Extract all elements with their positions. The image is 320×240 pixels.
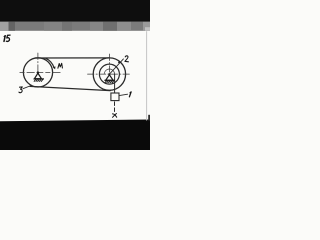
label 2 — [125, 56, 128, 62]
label M — [58, 63, 63, 68]
x axis dashed line — [114, 102, 116, 113]
top black scan band — [0, 0, 150, 22]
faint page edge line right — [146, 31, 148, 120]
pulley 2 axle pin — [108, 73, 110, 75]
figure number 15 — [4, 35, 10, 41]
pulley 2 vertical centerline — [108, 54, 110, 75]
weight 1 box — [111, 93, 119, 101]
pulley 3 support hatching — [34, 79, 44, 82]
gray strip under top band — [0, 22, 150, 31]
label 2 arrowhead — [118, 60, 121, 63]
small dark tick right edge above band — [148, 115, 150, 121]
leader line to label 1 — [119, 94, 127, 95]
leader line to label 3 — [23, 86, 31, 89]
pulley 2 outer rim — [93, 58, 125, 90]
pulley 3 horizontal centerline — [20, 71, 61, 73]
pulley 3 axle pin — [37, 71, 39, 73]
belt top run — [36, 57, 110, 59]
cord to weight — [114, 74, 116, 93]
label x — [113, 114, 117, 118]
label 1 — [129, 92, 131, 97]
pulley 3 support triangle — [34, 73, 41, 79]
leader line to label 2 — [110, 59, 123, 73]
pulley 2 support hatching — [104, 80, 114, 83]
pulley 2 support triangle — [106, 75, 113, 80]
pulley 2 hub circle — [104, 69, 114, 75]
pulley 3 vertical centerline — [37, 53, 39, 74]
label 3 — [19, 87, 22, 93]
moment M arc arrow — [46, 58, 55, 68]
paper background — [0, 0, 150, 150]
pulley 2 horizontal centerline — [88, 73, 132, 75]
pulley 2 middle step — [99, 64, 119, 84]
moment M arrowhead — [53, 66, 56, 69]
pulley 3 (left wheel) — [23, 58, 52, 87]
belt bottom run — [30, 86, 110, 90]
bottom black scan band — [0, 120, 150, 151]
